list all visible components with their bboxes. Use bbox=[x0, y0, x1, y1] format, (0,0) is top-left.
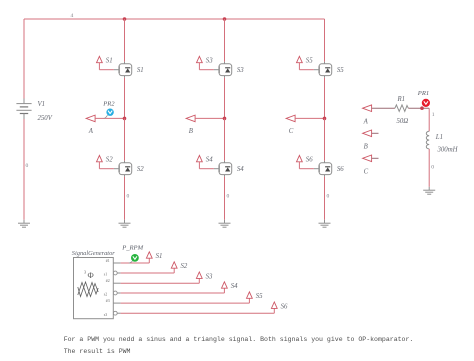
ground leg C bbox=[319, 220, 331, 227]
svg-text:S2: S2 bbox=[181, 263, 188, 270]
wire stub B right bbox=[372, 132, 379, 134]
svg-text:s2: s2 bbox=[104, 293, 108, 297]
signal generator pin s3 bbox=[113, 311, 120, 315]
probe PR1 bbox=[422, 99, 430, 107]
signal generator pin s2 bbox=[113, 291, 120, 295]
svg-text:S3: S3 bbox=[237, 67, 244, 74]
connector arrow S6 gate bbox=[297, 155, 303, 161]
connector arrow S6 output bbox=[271, 302, 277, 308]
junction top rail / leg B bbox=[223, 17, 227, 21]
signal generator pin #1 bbox=[113, 262, 120, 264]
connector arrow S5 gate bbox=[297, 56, 303, 62]
svg-text:PR1: PR1 bbox=[417, 90, 429, 97]
svg-text:S1: S1 bbox=[106, 57, 113, 64]
battery V1 bbox=[16, 99, 31, 120]
connector arrow S3 output bbox=[196, 272, 202, 278]
wire top rail to S1 bbox=[124, 19, 126, 62]
svg-text:S5: S5 bbox=[256, 293, 263, 300]
wire node A bbox=[95, 117, 124, 119]
svg-text:0: 0 bbox=[227, 193, 230, 199]
svg-text:S6: S6 bbox=[337, 166, 344, 173]
svg-text:S5: S5 bbox=[306, 57, 313, 64]
svg-text:Φ: Φ bbox=[88, 270, 94, 280]
wire top rail to S5 bbox=[324, 19, 326, 62]
svg-text:C: C bbox=[364, 169, 369, 176]
connector arrow phase C bbox=[286, 115, 295, 122]
svg-text:#1: #1 bbox=[106, 259, 110, 263]
wire node B bbox=[195, 117, 224, 119]
wire S1 gate bbox=[99, 63, 119, 70]
signal generator waveform icon bbox=[78, 282, 98, 297]
svg-text:1: 1 bbox=[432, 112, 435, 118]
wire S6 emitter to ground bbox=[324, 177, 326, 220]
wire node B to S4 bbox=[224, 118, 226, 160]
svg-text:s1: s1 bbox=[104, 273, 108, 277]
connector arrow S3 gate bbox=[197, 56, 203, 62]
resistor R1 bbox=[395, 105, 408, 112]
svg-text:S1: S1 bbox=[137, 67, 144, 74]
svg-text:S3: S3 bbox=[206, 273, 213, 280]
svg-text:S2: S2 bbox=[137, 166, 144, 173]
wire top rail net 4 bbox=[24, 18, 325, 20]
svg-text:C: C bbox=[289, 128, 294, 135]
ground leg A bbox=[119, 220, 131, 227]
wire S2 emitter to ground bbox=[124, 177, 126, 220]
wire S3 gate bbox=[199, 63, 219, 70]
junction node C bbox=[323, 117, 327, 121]
transistor S3 bbox=[219, 62, 232, 78]
transistor S6 bbox=[319, 161, 332, 177]
wire node A to S2 bbox=[124, 118, 126, 160]
svg-text:PR2: PR2 bbox=[102, 100, 115, 107]
connector arrow C right bbox=[363, 155, 372, 162]
svg-text:S1: S1 bbox=[156, 253, 163, 260]
connector arrow S1 output bbox=[146, 252, 152, 258]
svg-text:S4: S4 bbox=[237, 166, 244, 173]
connector arrow phase A bbox=[86, 115, 95, 122]
wire stub C right bbox=[372, 157, 379, 159]
transistor S5 bbox=[319, 62, 332, 78]
svg-text:SignalGenerator: SignalGenerator bbox=[72, 250, 115, 257]
svg-text:S4: S4 bbox=[231, 283, 238, 290]
svg-text:R1: R1 bbox=[397, 96, 406, 103]
svg-text:S6: S6 bbox=[306, 157, 313, 164]
svg-text:#3: #3 bbox=[106, 299, 110, 303]
svg-text:S6: S6 bbox=[281, 303, 288, 310]
connector arrow S2 output bbox=[171, 262, 177, 268]
ground L1 bbox=[423, 187, 435, 194]
wire pin #3 to S5 bbox=[121, 299, 250, 304]
connector arrow B right bbox=[363, 130, 372, 137]
connector arrow phase B bbox=[186, 115, 195, 122]
svg-text:250V: 250V bbox=[38, 115, 53, 122]
junction node A bbox=[123, 117, 127, 121]
svg-text:s3: s3 bbox=[104, 313, 108, 317]
signal generator pin s1 bbox=[113, 271, 120, 275]
wire S6 gate bbox=[299, 162, 319, 169]
wire node 1 down bbox=[428, 108, 430, 131]
svg-text:S4: S4 bbox=[206, 157, 213, 164]
transistor S2 bbox=[119, 161, 132, 177]
svg-text:The result is PWM: The result is PWM bbox=[64, 348, 131, 355]
wire S3 emitter to node B bbox=[224, 78, 226, 119]
wire V1 positive bbox=[23, 19, 25, 99]
svg-text:4: 4 bbox=[71, 13, 74, 19]
svg-text:0: 0 bbox=[327, 193, 330, 199]
wire S4 gate bbox=[199, 162, 219, 169]
wire S5 gate bbox=[299, 63, 319, 70]
connector arrow S2 gate bbox=[97, 155, 103, 161]
svg-text:V1: V1 bbox=[38, 101, 46, 108]
signal generator pin #2 bbox=[113, 282, 120, 284]
signal generator pin #3 bbox=[113, 302, 120, 304]
wire S4 emitter to ground bbox=[224, 177, 226, 220]
svg-text:#2: #2 bbox=[106, 279, 110, 283]
connector arrow S1 gate bbox=[97, 56, 103, 62]
svg-text:0: 0 bbox=[26, 163, 29, 169]
svg-text:A: A bbox=[363, 118, 369, 125]
wire V1 negative to ground bbox=[23, 119, 25, 220]
wire R1 to node 1 bbox=[408, 107, 429, 109]
svg-text:S5: S5 bbox=[337, 67, 344, 74]
probe P_RPM bbox=[131, 254, 139, 262]
svg-text:300mH: 300mH bbox=[437, 146, 459, 153]
wire node C to S6 bbox=[324, 118, 326, 160]
connector arrow S5 output bbox=[247, 292, 253, 298]
wire pin s3 to S6 bbox=[121, 309, 275, 314]
svg-text:S2: S2 bbox=[106, 157, 113, 164]
wire A to R1 bbox=[372, 107, 395, 109]
wire pin #1 to S1 bbox=[121, 258, 150, 263]
transistor S4 bbox=[219, 161, 232, 177]
probe PR2 leader bbox=[104, 115, 108, 118]
probe PR2 bbox=[106, 109, 113, 116]
svg-text:B: B bbox=[364, 144, 368, 151]
wire top rail to S3 bbox=[224, 19, 226, 62]
wire pin s1 to S2 bbox=[121, 268, 175, 273]
wire pin s2 to S4 bbox=[121, 288, 225, 293]
svg-text:3: 3 bbox=[84, 269, 86, 274]
connector arrow A right bbox=[363, 105, 372, 112]
svg-text:A: A bbox=[88, 128, 94, 135]
probe P_RPM leader bbox=[129, 261, 133, 263]
ground leg B bbox=[219, 220, 231, 227]
wire S5 emitter to node C bbox=[324, 78, 326, 119]
wire S1 emitter to node A bbox=[124, 78, 126, 119]
svg-text:For a PWM you nedd a sinus and: For a PWM you nedd a sinus and a triangl… bbox=[64, 336, 414, 343]
wire pin #2 to S3 bbox=[121, 279, 200, 284]
junction node B bbox=[223, 117, 227, 121]
wire S2 gate bbox=[99, 162, 119, 169]
svg-text:L1: L1 bbox=[435, 134, 443, 141]
junction PR1 bbox=[420, 106, 424, 110]
svg-text:0: 0 bbox=[127, 193, 130, 199]
wire L1 to ground bbox=[428, 149, 430, 187]
signal generator U1 box bbox=[74, 258, 114, 319]
connector arrow S4 output bbox=[222, 282, 228, 288]
svg-text:B: B bbox=[189, 128, 193, 135]
inductor L1 bbox=[426, 131, 429, 149]
signal generator 3-phase symbol bbox=[84, 269, 94, 280]
svg-text:0: 0 bbox=[431, 164, 434, 170]
wire node C bbox=[295, 117, 324, 119]
svg-text:S3: S3 bbox=[206, 57, 213, 64]
svg-text:P_RPM: P_RPM bbox=[121, 244, 143, 251]
transistor S1 bbox=[119, 62, 132, 78]
svg-text:50Ω: 50Ω bbox=[397, 118, 409, 125]
connector arrow S4 gate bbox=[197, 155, 203, 161]
junction top rail / leg A bbox=[123, 17, 127, 21]
ground battery bbox=[18, 220, 30, 227]
